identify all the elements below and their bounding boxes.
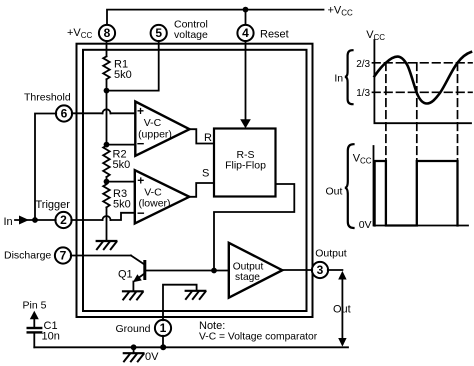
pin 8 [99, 25, 115, 41]
node R1/R2 junction [104, 88, 110, 94]
svg-text:1/3: 1/3 [356, 88, 370, 99]
wire R3 to ground [106, 207, 108, 240]
node junction top rail / pin 4 [243, 7, 249, 13]
wire pin3 out measurement arrow [341, 274, 343, 344]
svg-text:Output: Output [315, 248, 347, 260]
wire R output upper comparator to flip-flop [190, 129, 215, 143]
pin 7 [55, 247, 71, 263]
svg-text:4: 4 [242, 26, 249, 40]
node minus input upper comparator [104, 142, 110, 148]
svg-text:In: In [334, 72, 343, 84]
pin 2 [55, 212, 71, 228]
resistor R3 5k0 [103, 184, 110, 207]
wire node to R2 [106, 91, 108, 146]
svg-text:8: 8 [104, 26, 111, 40]
svg-text:5k0: 5k0 [114, 69, 132, 81]
svg-text:Flip-Flop: Flip-Flop [225, 160, 266, 172]
pin 4 [237, 25, 253, 41]
wire 0V rail [34, 346, 348, 348]
waveform In axis [374, 40, 471, 123]
svg-text:Ground: Ground [116, 323, 151, 335]
resistor R1 5k0 [103, 56, 110, 79]
node Q1 base junction [211, 268, 217, 274]
R-S flip-flop box U1 [214, 129, 276, 197]
svg-text:+: + [137, 174, 144, 188]
svg-text:Out: Out [333, 304, 351, 316]
svg-text:Trigger: Trigger [36, 199, 71, 211]
reset arrowhead [240, 119, 251, 128]
svg-text:Output: Output [233, 262, 264, 273]
wire minus input upper comparator [107, 144, 136, 146]
op-amp V-C upper comparator [135, 102, 189, 156]
wire plus input lower comparator [107, 181, 135, 183]
svg-text:stage: stage [235, 272, 260, 283]
wire reset pin4 to flip-flop [245, 41, 247, 121]
svg-text:Pin 5: Pin 5 [23, 300, 47, 312]
wire junction to Q1 base [146, 270, 214, 272]
svg-text:0V: 0V [359, 219, 372, 231]
wire pin4 riser [245, 10, 247, 26]
op-amp V-C lower comparator [135, 170, 190, 223]
capacitor C1 10n [28, 311, 42, 348]
svg-text:0V: 0V [145, 351, 159, 363]
svg-text:5: 5 [155, 26, 162, 40]
node In junction [32, 217, 38, 223]
dashed 2/3 level [373, 62, 473, 64]
pin 1 [155, 320, 171, 336]
svg-text:Out: Out [326, 186, 343, 198]
ground below R3 [97, 241, 117, 249]
wire threshold pin6 to plus input upper comparator with hop [72, 112, 136, 114]
svg-text:2/3: 2/3 [356, 59, 370, 70]
svg-text:Threshold: Threshold [24, 92, 71, 104]
waveform Out axis [374, 146, 469, 226]
svg-text:10n: 10n [42, 331, 60, 343]
svg-text:5k0: 5k0 [113, 159, 131, 171]
ground below Q1 emitter [123, 291, 143, 299]
svg-text:R: R [204, 132, 212, 144]
pin 3 [312, 262, 328, 278]
waveform In sine curve [374, 52, 471, 104]
brace Out [345, 144, 354, 228]
node pin1 rail junction [160, 344, 166, 350]
ground internal right [186, 291, 206, 299]
IC outer box [77, 44, 313, 317]
svg-text:V-C: V-C [144, 117, 162, 129]
wire pin1 to 0V rail [162, 336, 164, 348]
IC inner box [83, 50, 307, 311]
svg-text:voltage: voltage [174, 29, 208, 41]
resistor R2 5k0 [103, 146, 110, 178]
wire pin3 to out arrow [328, 269, 343, 271]
node R2/R3 junction [104, 179, 110, 185]
pin 5 [151, 25, 167, 41]
svg-text:−: − [137, 206, 145, 221]
wire junction to output stage [214, 270, 229, 272]
svg-text:Q1: Q1 [118, 269, 133, 281]
svg-text:7: 7 [60, 249, 67, 263]
In arrowhead [19, 216, 29, 225]
brace In [345, 50, 353, 104]
svg-text:In: In [4, 216, 13, 228]
svg-text:3: 3 [317, 263, 324, 277]
dashed vertical crossing 3 [457, 63, 459, 161]
node ground symbol junction [131, 344, 137, 350]
wire In arrow to pin2 [15, 219, 56, 221]
wire pin8 to R1 [106, 41, 108, 56]
svg-text:1: 1 [160, 321, 167, 335]
svg-text:−: − [137, 136, 145, 151]
dashed vertical crossing 1 [385, 63, 387, 161]
transistor Q1 [131, 256, 145, 292]
wire S output lower comparator to flip-flop [189, 183, 214, 197]
wire trigger pin2 to minus input lower comparator with hop [71, 213, 135, 220]
ground 0V symbol [124, 347, 144, 361]
svg-text:+: + [137, 104, 144, 118]
svg-text:S: S [202, 168, 209, 180]
svg-text:Reset: Reset [260, 29, 289, 41]
wire flip-flop output wrap-around [214, 184, 294, 271]
wire R2 to node [106, 177, 108, 182]
pin 6 [56, 105, 72, 121]
wire discharge pin7 to Q1 collector [71, 255, 131, 257]
output stage triangle [229, 243, 282, 298]
dashed vertical crossing 2 [416, 63, 418, 161]
svg-text:2: 2 [60, 213, 67, 227]
waveform Out square wave [375, 161, 458, 226]
svg-text:5k0: 5k0 [113, 198, 131, 210]
wire pin1 ground internal [163, 285, 197, 321]
wire output stage to pin3 [282, 269, 312, 271]
wire pin6 left down to In line [35, 114, 56, 221]
wire R1 to node [106, 79, 108, 90]
svg-text:Note:: Note: [199, 320, 225, 332]
wire top +Vcc rail [107, 10, 324, 26]
svg-text:V-C = Voltage comparator: V-C = Voltage comparator [199, 332, 318, 343]
svg-text:Discharge: Discharge [4, 250, 51, 262]
svg-text:6: 6 [61, 107, 68, 121]
dashed 1/3 level [373, 91, 473, 93]
wire pin5 control voltage to node [107, 41, 159, 91]
